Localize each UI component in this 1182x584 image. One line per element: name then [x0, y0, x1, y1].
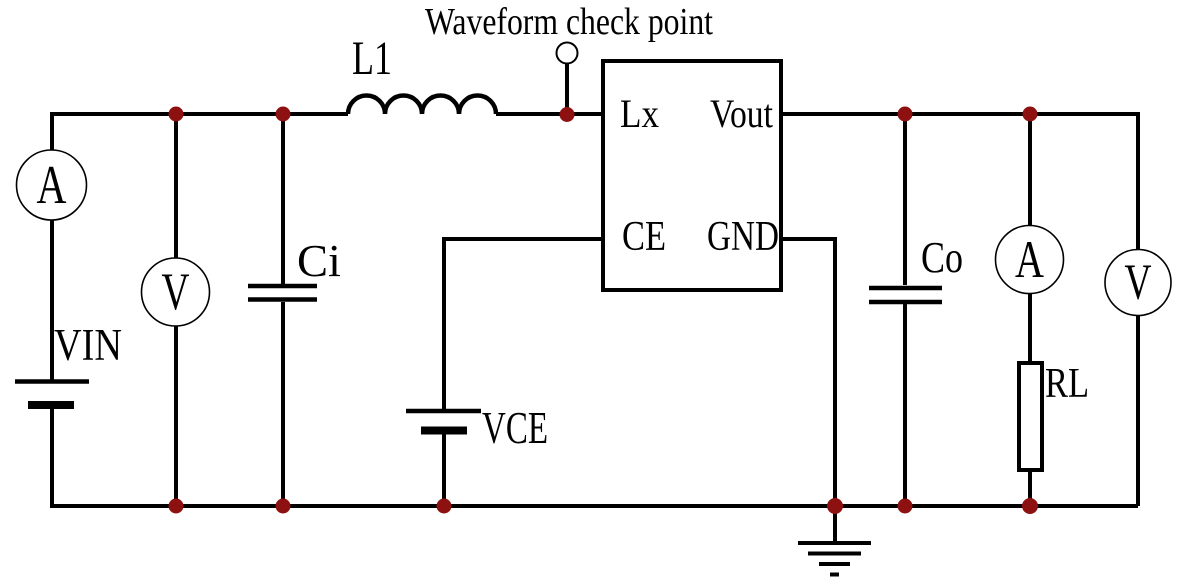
wire: Co to bottom rail — [903, 304, 907, 506]
svg-text:RL: RL — [1045, 361, 1089, 407]
svg-text:Lx: Lx — [620, 91, 659, 136]
wire: ammeter A2 branch top — [1028, 114, 1032, 226]
wire: resistor RL to bottom rail — [1028, 470, 1032, 506]
wire: ammeter A2 to resistor RL — [1028, 293, 1032, 363]
node: bottom rail / ground junction — [827, 498, 843, 514]
wire: VCE battery to bottom rail — [442, 434, 446, 506]
wire: inductor to Lx pin — [496, 112, 603, 116]
wire: ammeter to VIN battery — [50, 220, 54, 381]
svg-text:CE: CE — [622, 214, 666, 260]
svg-text:V: V — [162, 263, 190, 321]
node: bottom rail / Co junction — [898, 499, 913, 514]
node: Lx / check point junction — [560, 107, 575, 122]
svg-text:Ci: Ci — [297, 235, 341, 286]
svg-text:Waveform check point: Waveform check point — [425, 1, 713, 43]
svg-text:GND: GND — [707, 214, 779, 260]
wire: voltmeter V2 to bottom rail — [1136, 315, 1140, 506]
wire: Ci branch top — [281, 114, 285, 284]
wire: CE pin to VCE battery — [444, 239, 603, 409]
wire: ground stub below rail — [833, 506, 837, 543]
wire: voltmeter V1 to bottom rail — [174, 326, 178, 506]
wire: Vout pin to top-right rail — [781, 112, 1138, 116]
node: bottom rail / V1 junction — [169, 499, 184, 514]
wire: Co branch top — [903, 114, 907, 285]
wire: Ci to bottom rail — [281, 302, 285, 506]
svg-text:A: A — [1015, 231, 1044, 289]
node: Vout rail / Co junction — [898, 107, 913, 122]
wire: GND pin to ground — [781, 239, 835, 506]
wire: right rail down to voltmeter V2 — [1136, 112, 1140, 249]
voltmeter V1 (left) — [142, 258, 210, 326]
svg-text:Vout: Vout — [710, 91, 773, 136]
wire: bottom rail — [50, 504, 1138, 508]
capacitor Co — [869, 286, 942, 291]
ammeter A1 (left) — [17, 150, 87, 220]
wire: left vertical (top rail down to ammeter) — [50, 112, 54, 150]
svg-text:A: A — [37, 154, 67, 215]
node: bottom rail / Ci junction — [276, 499, 291, 514]
svg-text:VIN: VIN — [54, 320, 122, 370]
node: bottom rail / VCE junction — [437, 499, 452, 514]
ground — [798, 541, 871, 545]
inductor L1 — [348, 96, 496, 115]
svg-text:L1: L1 — [352, 32, 392, 85]
wire: voltmeter V1 branch top — [174, 114, 178, 258]
svg-text:Co: Co — [921, 233, 963, 282]
battery VIN — [15, 379, 89, 384]
ammeter A2 (right) — [996, 226, 1064, 294]
waveform check point terminal — [557, 43, 578, 64]
wire: VIN battery to bottom rail — [50, 408, 54, 506]
op-amp U1 (DC/DC converter IC box) — [603, 61, 781, 290]
wire: check point stub — [565, 64, 569, 116]
capacitor Ci — [248, 284, 317, 289]
battery VCE — [406, 409, 481, 414]
node: Vout rail / A2 junction — [1023, 107, 1038, 122]
node: bottom rail / RL junction — [1022, 498, 1038, 514]
node: top rail / V1 junction — [169, 107, 184, 122]
voltmeter V2 (right) — [1105, 250, 1171, 316]
resistor RL — [1019, 363, 1042, 470]
svg-text:VCE: VCE — [482, 403, 548, 453]
wire: top rail left segment (VIN top to inductor) — [52, 112, 348, 116]
svg-text:V: V — [1125, 255, 1152, 311]
node: top rail / Ci junction — [276, 107, 291, 122]
